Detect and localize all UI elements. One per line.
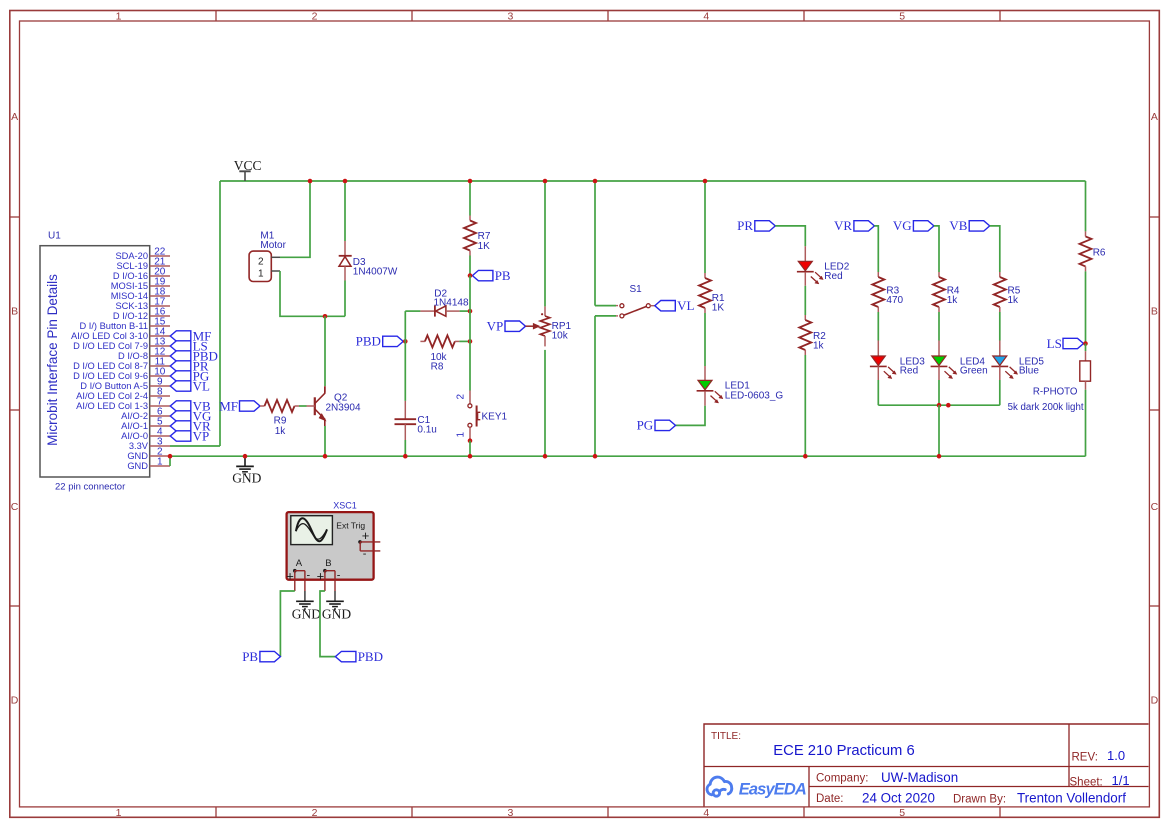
junction LS node	[1083, 341, 1088, 346]
svg-text:R6: R6	[1093, 247, 1106, 258]
svg-text:2N3904: 2N3904	[326, 402, 361, 413]
net flag PBD at U1 pin 12	[170, 351, 191, 361]
XSC1 trig pin	[358, 540, 362, 544]
svg-text:1: 1	[116, 10, 122, 22]
svg-text:VCC: VCC	[234, 158, 262, 173]
svg-text:D I/O Button A-5: D I/O Button A-5	[80, 381, 148, 391]
svg-text:1N4148: 1N4148	[434, 298, 469, 309]
XSC1 channel B pins	[323, 569, 327, 573]
wire top VCC rail	[220, 180, 1086, 182]
net flag MF at U1 pin 14	[170, 331, 191, 341]
wire PBD vertical up to D2	[404, 311, 406, 341]
svg-text:B: B	[11, 305, 18, 317]
svg-text:1N4007W: 1N4007W	[353, 266, 398, 277]
junction C1 on GND rail	[403, 454, 408, 459]
svg-text:AI/O-2: AI/O-2	[121, 411, 148, 421]
svg-text:D: D	[11, 694, 19, 706]
svg-text:VP: VP	[487, 319, 504, 334]
U1 pin 9 D I/O Button A-5	[150, 385, 170, 387]
frame bottom ruler ticks	[215, 807, 217, 817]
wire LED4 to bottom link	[938, 380, 940, 405]
net flag MF at R9	[240, 401, 261, 411]
wire left vertical VCC rail	[219, 181, 221, 446]
svg-text:AI/O-0: AI/O-0	[121, 431, 148, 441]
svg-text:Red: Red	[824, 271, 842, 282]
junction LED link on GND rail	[937, 454, 942, 459]
wire C1 to GND rail	[404, 440, 406, 456]
wire LED5 to bottom link	[999, 380, 1001, 405]
svg-text:XSC1: XSC1	[333, 500, 357, 510]
junction KEY1 on GND rail	[468, 454, 473, 459]
svg-text:-: -	[337, 569, 341, 581]
U1 pin 3 3.3V	[150, 445, 170, 447]
wire U1 pin3 3.3V to left rail	[170, 445, 220, 447]
XSC1 channel A pins	[293, 569, 297, 573]
wire PBD down to C1	[404, 341, 406, 401]
VCC power symbol	[244, 172, 246, 181]
svg-text:2: 2	[456, 394, 467, 400]
svg-text:D I/O-16: D I/O-16	[113, 271, 148, 281]
svg-text:C: C	[1151, 501, 1159, 513]
RP1 wiper arrow	[526, 325, 535, 327]
wire VG to R4	[934, 226, 939, 272]
wire M1 pin1 down to node	[280, 271, 345, 316]
svg-text:U1: U1	[48, 230, 61, 241]
wire LED1 to PG flag	[676, 406, 706, 426]
net flag VB at U1 pin 7	[170, 401, 191, 411]
svg-text:5k dark 200k light: 5k dark 200k light	[1008, 402, 1084, 413]
svg-text:PB: PB	[242, 649, 258, 664]
U1 pin 5 AI/O-1	[150, 425, 170, 427]
svg-text:1.0: 1.0	[1107, 748, 1125, 763]
svg-text:LS: LS	[1047, 336, 1062, 351]
wire D2 to KEY1 column	[460, 310, 470, 312]
svg-text:Drawn By:: Drawn By:	[953, 793, 1006, 805]
net flag VG	[913, 221, 934, 231]
wire R6 branch from VCC rail	[1085, 181, 1087, 231]
wire XSC1 B+ to PBD flag	[320, 591, 335, 657]
wire LED bottom link horizontal	[878, 404, 1000, 406]
frame right ruler ticks	[1149, 216, 1159, 218]
frame top ruler ticks	[215, 11, 217, 22]
svg-text:Motor: Motor	[260, 240, 286, 251]
net flag VG at U1 pin 6	[170, 411, 191, 421]
junction LED link left	[937, 403, 942, 408]
U1 pin 10 D I/O LED Col 9-6	[150, 375, 170, 377]
diode D2 1N4148	[420, 310, 435, 312]
svg-text:AI/O-1: AI/O-1	[121, 421, 148, 431]
wire R9 to Q2 base	[299, 405, 307, 407]
wire D2 row left segment	[405, 310, 420, 312]
net flag VR at U1 pin 5	[170, 421, 191, 431]
svg-text:D I/) Button B-11: D I/) Button B-11	[79, 321, 148, 331]
svg-text:5: 5	[899, 807, 905, 819]
XSC1 screen	[291, 516, 333, 545]
wire R2 to GND rail	[804, 355, 806, 456]
wire PR to LED2 column	[775, 226, 805, 246]
svg-text:VL: VL	[193, 378, 210, 393]
svg-text:MF: MF	[219, 398, 238, 413]
U1 pin 8 AI/O LED Col 2-4	[150, 395, 170, 397]
svg-text:-: -	[363, 548, 367, 560]
U1 pin 1 GND	[150, 465, 170, 467]
svg-text:1K: 1K	[478, 241, 491, 252]
svg-text:4: 4	[703, 807, 709, 819]
resistor R8 10k	[420, 340, 425, 342]
svg-text:B: B	[1151, 305, 1158, 317]
svg-text:R9: R9	[274, 416, 287, 427]
svg-text:MISO-14: MISO-14	[111, 291, 148, 301]
junction R8 right	[468, 339, 473, 344]
U1 pin 11 D I/O LED Col 8-7	[150, 365, 170, 367]
svg-text:Company:: Company:	[816, 773, 868, 785]
U1 pin 4 AI/O-0	[150, 435, 170, 437]
svg-text:Date:: Date:	[816, 793, 844, 805]
diode D3 1N4007W	[344, 241, 346, 256]
svg-text:VP: VP	[193, 428, 210, 443]
U1 pin 20 D I/O-16	[150, 275, 170, 277]
svg-text:VL: VL	[677, 298, 694, 313]
svg-text:D I/O-8: D I/O-8	[118, 351, 148, 361]
junction S1 on GND rail	[593, 454, 598, 459]
key switch KEY1	[469, 391, 471, 404]
net flag LS at U1 pin 13	[170, 341, 191, 351]
svg-text:-: -	[307, 569, 311, 581]
svg-text:Red: Red	[900, 366, 918, 377]
svg-text:1k: 1k	[813, 341, 825, 352]
net flag PBD	[383, 336, 404, 346]
wire R7 to PB node	[469, 256, 471, 276]
svg-text:GND: GND	[292, 607, 321, 622]
U1 pin 6 AI/O-2	[150, 415, 170, 417]
junction R7 branch on VCC rail	[468, 179, 473, 184]
LED4 Green	[938, 341, 940, 357]
wire R8 right to junction	[459, 340, 470, 342]
svg-text:2: 2	[312, 10, 318, 22]
svg-text:A: A	[1151, 111, 1158, 123]
LED3 Red	[877, 341, 879, 357]
ground symbol at XSC1 B-	[334, 591, 336, 601]
svg-text:PR: PR	[737, 218, 753, 233]
svg-text:MOSI-15: MOSI-15	[111, 281, 148, 291]
resistor R1 1K	[704, 273, 706, 278]
svg-text:+: +	[317, 568, 325, 583]
svg-text:1: 1	[116, 807, 122, 819]
LED2 Red	[804, 246, 806, 261]
junction LED link right	[946, 403, 951, 408]
svg-text:SDA-20: SDA-20	[115, 251, 148, 261]
svg-text:AI/O LED Col 2-4: AI/O LED Col 2-4	[76, 391, 148, 401]
svg-text:470: 470	[886, 295, 903, 306]
svg-text:1k: 1k	[1008, 295, 1020, 306]
junction PB node	[468, 273, 473, 278]
net flag PBD at XSC1	[335, 651, 356, 661]
U1 pin 19 MOSI-15	[150, 285, 170, 287]
title block outline	[704, 724, 1149, 807]
svg-text:S1: S1	[630, 284, 643, 295]
svg-text:LED-0603_G: LED-0603_G	[725, 390, 784, 401]
svg-text:5: 5	[899, 10, 905, 22]
wire S1 lower contact	[595, 315, 616, 317]
wire XSC1 A+ to PB flag	[280, 591, 294, 657]
wire R6 to LS node	[1085, 271, 1087, 343]
wire VB to R5	[990, 226, 1000, 272]
svg-text:PG: PG	[637, 418, 654, 433]
svg-text:GND: GND	[232, 471, 261, 486]
LED5 Blue	[999, 341, 1001, 357]
U1 pin 22 SDA-20	[150, 255, 170, 257]
net flag LS	[1063, 338, 1084, 348]
XSC1 sine wave	[296, 518, 327, 541]
svg-text:B: B	[325, 558, 331, 569]
junction D2 right	[468, 309, 473, 314]
svg-text:AI/O LED Col 3-10: AI/O LED Col 3-10	[71, 331, 148, 341]
resistor R6	[1085, 231, 1087, 236]
junction Q2 emitter on GND rail	[323, 454, 328, 459]
transistor Q2 2N3904	[324, 386, 326, 393]
wire VR to R3	[874, 226, 878, 272]
svg-text:SCK-13: SCK-13	[115, 301, 148, 311]
wire M1 pin2 to VCC rail	[280, 181, 310, 257]
net flag PB	[472, 270, 493, 280]
svg-text:D: D	[1151, 694, 1159, 706]
svg-text:3: 3	[507, 10, 513, 22]
U1 pin 14 AI/O LED Col 3-10	[150, 335, 170, 337]
wire R4 to LED4	[938, 312, 940, 341]
svg-text:PB: PB	[495, 268, 511, 283]
capacitor C1 0.1u	[404, 401, 406, 419]
svg-text:EasyEDA: EasyEDA	[739, 781, 806, 799]
junction R2 on GND rail	[803, 454, 808, 459]
svg-text:PBD: PBD	[356, 334, 381, 349]
wire LED link to GND rail	[938, 405, 940, 456]
wire LED3 to bottom link	[877, 380, 879, 405]
junction D3 branch on VCC rail	[343, 179, 348, 184]
svg-text:R-PHOTO: R-PHOTO	[1033, 387, 1078, 398]
net flag PB at XSC1	[260, 651, 281, 661]
svg-text:1k: 1k	[275, 426, 287, 437]
ground symbol GND main	[244, 456, 246, 466]
svg-text:UW-Madison: UW-Madison	[881, 770, 958, 785]
svg-text:A: A	[11, 111, 18, 123]
frame left ruler ticks	[10, 216, 20, 218]
wire RP1 to GND rail	[544, 350, 546, 456]
svg-text:4: 4	[703, 10, 709, 22]
net flag PG at U1 pin 10	[170, 371, 191, 381]
wire S1 branch from VCC rail	[594, 181, 596, 306]
resistor R9 1k	[260, 405, 265, 407]
svg-text:24 Oct 2020: 24 Oct 2020	[862, 790, 935, 805]
wire R7 branch from VCC rail	[469, 181, 471, 216]
wire S1 upper contact	[595, 305, 616, 307]
svg-text:SCL-19: SCL-19	[116, 261, 148, 271]
U1 pin 2 GND	[150, 455, 170, 457]
svg-text:22 pin connector: 22 pin connector	[55, 482, 125, 493]
svg-text:0.1u: 0.1u	[417, 425, 436, 436]
svg-text:D I/O LED Col 8-7: D I/O LED Col 8-7	[73, 361, 148, 371]
net flag VP	[505, 321, 526, 331]
svg-text:Sheet:: Sheet:	[1070, 776, 1103, 788]
svg-text:D I/O-12: D I/O-12	[113, 311, 148, 321]
svg-text:D I/O LED Col 7-9: D I/O LED Col 7-9	[73, 341, 148, 351]
U1 pin 18 MISO-14	[150, 295, 170, 297]
resistor R3 470	[877, 272, 879, 277]
svg-text:1/1: 1/1	[1112, 773, 1130, 788]
wire PB node down to KEY1	[469, 276, 471, 391]
resistor R4 1k	[938, 272, 940, 277]
wire D3 branch from VCC rail	[344, 181, 346, 241]
svg-text:1: 1	[258, 268, 264, 279]
net flag VL	[655, 301, 676, 311]
photoresistor R-PHOTO	[1085, 344, 1087, 352]
wire D3 to node	[344, 281, 346, 317]
net flag VB	[969, 221, 990, 231]
svg-text:TITLE:: TITLE:	[711, 731, 741, 742]
U1 pin 16 D I/O-12	[150, 315, 170, 317]
svg-text:Blue: Blue	[1019, 366, 1039, 377]
U1 pin 21 SCL-19	[150, 265, 170, 267]
junction M1 branch on VCC rail	[308, 179, 313, 184]
svg-text:2: 2	[258, 257, 264, 268]
svg-text:1: 1	[157, 457, 163, 468]
junction RP1 branch on VCC rail	[543, 179, 548, 184]
svg-text:+: +	[286, 568, 294, 583]
svg-text:Green: Green	[960, 366, 988, 377]
U1 pin 7 AI/O LED Col 1-3	[150, 405, 170, 407]
svg-text:3.3V: 3.3V	[129, 441, 149, 451]
wire S1 lower to GND rail	[594, 316, 596, 456]
svg-text:VR: VR	[834, 218, 852, 233]
wire bottom GND rail	[170, 455, 1086, 457]
svg-text:ECE 210 Practicum 6: ECE 210 Practicum 6	[773, 743, 914, 759]
junction KEY1 bottom	[468, 438, 473, 443]
svg-text:D I/O LED Col 9-6: D I/O LED Col 9-6	[73, 371, 148, 381]
ground symbol at XSC1 A-	[304, 591, 306, 601]
net flag VP at U1 pin 4	[170, 431, 191, 441]
U1 pin 12 D I/O-8	[150, 355, 170, 357]
svg-text:1: 1	[456, 432, 467, 438]
net flag VR	[854, 221, 875, 231]
svg-text:1K: 1K	[712, 303, 725, 314]
svg-text:REV:: REV:	[1072, 752, 1098, 764]
resistor R2 1k	[804, 315, 806, 320]
resistor R5 1k	[999, 272, 1001, 277]
svg-text:Microbit Interface Pin Details: Microbit Interface Pin Details	[45, 274, 60, 446]
net flag VL at U1 pin 9	[170, 381, 191, 391]
svg-text:+: +	[362, 528, 370, 543]
junction R1 branch on VCC rail	[703, 179, 708, 184]
wire R1 to LED1	[704, 313, 706, 366]
junction PBD node	[403, 339, 408, 344]
svg-text:GND: GND	[127, 451, 148, 461]
junction pin2 GND node	[168, 454, 173, 459]
svg-text:PBD: PBD	[358, 649, 383, 664]
wire Q2 emitter to GND rail	[324, 426, 326, 456]
svg-text:Trenton Vollendorf: Trenton Vollendorf	[1017, 791, 1126, 806]
junction S1 branch on VCC rail	[593, 179, 598, 184]
net flag PR	[755, 221, 776, 231]
svg-text:AI/O LED Col 1-3: AI/O LED Col 1-3	[76, 401, 148, 411]
wire R1 branch from VCC rail	[704, 181, 706, 273]
svg-text:1k: 1k	[947, 295, 959, 306]
svg-text:3: 3	[507, 807, 513, 819]
resistor R7 1K	[469, 216, 471, 221]
wire R5 to LED5	[999, 312, 1001, 341]
svg-text:KEY1: KEY1	[482, 411, 508, 422]
U1 pin 15 D I/) Button B-11	[150, 325, 170, 327]
svg-text:GND: GND	[127, 461, 148, 471]
wire LED2 to R2	[804, 286, 806, 315]
wire U1 pin1 up to pin2 node	[169, 456, 171, 466]
svg-text:VB: VB	[949, 218, 967, 233]
U1 pin 17 SCK-13	[150, 305, 170, 307]
svg-text:VG: VG	[893, 218, 912, 233]
EasyEDA logo	[707, 777, 732, 796]
svg-text:2: 2	[312, 807, 318, 819]
svg-text:GND: GND	[322, 607, 351, 622]
junction RP1 on GND rail	[543, 454, 548, 459]
svg-text:A: A	[296, 558, 303, 569]
potentiometer RP1 10k	[544, 306, 546, 316]
LED1 LED-0603_G green	[704, 366, 706, 380]
wire KEY1 to GND rail	[469, 441, 471, 457]
net flag PG	[655, 420, 676, 430]
svg-text:R8: R8	[431, 361, 444, 372]
wire Q2 collector	[324, 316, 326, 386]
wire RP1 branch from VCC rail	[544, 181, 546, 306]
junction Q2 collector node	[323, 314, 328, 319]
wire R-PHOTO to GND rail	[1085, 390, 1087, 457]
svg-text:C: C	[11, 501, 19, 513]
U1 pin 13 D I/O LED Col 7-9	[150, 345, 170, 347]
net flag PR at U1 pin 11	[170, 361, 191, 371]
wire R3 to LED3	[877, 312, 879, 341]
svg-text:10k: 10k	[552, 330, 569, 341]
